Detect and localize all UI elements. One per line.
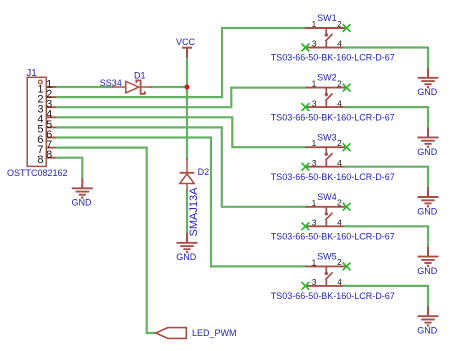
wire SW2 pin4 to GND — [344, 107, 428, 128]
svg-text:SW5: SW5 — [317, 252, 337, 262]
svg-text:3: 3 — [312, 158, 317, 168]
svg-text:2: 2 — [337, 138, 342, 148]
switch SW4 — [305, 207, 345, 227]
diode D2 (TVS) — [180, 159, 195, 191]
no-connect X pin2 SW1 — [343, 24, 351, 32]
svg-text:GND: GND — [176, 252, 197, 262]
svg-text:D2: D2 — [198, 167, 210, 177]
J1 pin numbers 1-8 — [46, 78, 52, 161]
svg-text:GND: GND — [417, 87, 438, 97]
svg-text:8: 8 — [37, 154, 43, 166]
svg-text:3: 3 — [312, 98, 317, 108]
switch SW2 — [305, 88, 345, 108]
svg-text:3: 3 — [312, 39, 317, 49]
switch SW5 — [305, 266, 345, 286]
ground GND-SW4 — [418, 247, 439, 267]
ground GND-SW3 — [418, 187, 439, 207]
switch SW3 — [305, 147, 345, 167]
wire D1 to VCC junction — [151, 86, 187, 88]
no-connect X pin2 SW3 — [343, 143, 351, 151]
svg-text:TS03-66-50-BK-160-LCR-D-67: TS03-66-50-BK-160-LCR-D-67 — [271, 112, 395, 122]
svg-text:2: 2 — [337, 198, 342, 208]
svg-text:8: 8 — [46, 149, 52, 161]
ground GND-D2 — [177, 233, 198, 253]
svg-text:SW2: SW2 — [317, 73, 337, 83]
svg-text:SMAJ13A: SMAJ13A — [188, 187, 200, 237]
wire pin2 to SW1 — [57, 28, 305, 97]
svg-text:2: 2 — [337, 257, 342, 267]
wire pin1 to D1 — [57, 86, 112, 88]
svg-text:3: 3 — [312, 277, 317, 287]
wire SW1 pin4 to GND — [344, 48, 428, 69]
no-connect X pin2 SW2 — [343, 84, 351, 92]
svg-text:1: 1 — [312, 198, 317, 208]
junction node VCC — [185, 85, 190, 90]
svg-text:TS03-66-50-BK-160-LCR-D-67: TS03-66-50-BK-160-LCR-D-67 — [271, 172, 395, 182]
svg-text:1: 1 — [312, 257, 317, 267]
svg-text:TS03-66-50-BK-160-LCR-D-67: TS03-66-50-BK-160-LCR-D-67 — [271, 232, 395, 242]
no-connect X pin3 SW3 — [302, 163, 310, 171]
wire D2 to GND — [186, 191, 188, 233]
svg-text:SW3: SW3 — [317, 132, 337, 142]
svg-text:TS03-66-50-BK-160-LCR-D-67: TS03-66-50-BK-160-LCR-D-67 — [271, 291, 395, 301]
no-connect X pin3 SW2 — [302, 103, 310, 111]
ground GND-SW2 — [418, 128, 439, 148]
svg-text:SS34: SS34 — [100, 78, 122, 88]
no-connect X pin2 SW4 — [343, 203, 351, 211]
ground GND-SW1 — [418, 68, 439, 88]
svg-text:3: 3 — [312, 218, 317, 228]
svg-text:4: 4 — [337, 39, 342, 49]
wire pin4 to SW3 — [57, 117, 305, 147]
svg-text:4: 4 — [337, 277, 342, 287]
wire pin3 to SW2 — [57, 88, 305, 108]
wire junction down to D2 — [186, 87, 188, 159]
svg-text:GND: GND — [417, 206, 438, 216]
svg-text:4: 4 — [337, 158, 342, 168]
ground GND-J1 — [72, 179, 93, 199]
svg-text:SW1: SW1 — [317, 13, 337, 23]
J1 pin names 1-8 — [37, 83, 43, 166]
svg-text:TS03-66-50-BK-160-LCR-D-67: TS03-66-50-BK-160-LCR-D-67 — [271, 53, 395, 63]
wire VCC rail vertical — [186, 58, 188, 88]
switch SW1 — [305, 28, 345, 48]
svg-text:GND: GND — [417, 147, 438, 157]
svg-text:J1: J1 — [26, 68, 37, 79]
svg-text:1: 1 — [312, 138, 317, 148]
svg-text:4: 4 — [337, 98, 342, 108]
no-connect X pin3 SW5 — [302, 282, 310, 290]
wire pin7 to LED_PWM — [57, 148, 156, 333]
svg-text:VCC: VCC — [176, 37, 196, 47]
svg-text:2: 2 — [337, 19, 342, 29]
svg-text:D1: D1 — [134, 71, 146, 81]
wire pin8 to GND — [57, 158, 82, 179]
ground GND-SW5 — [418, 306, 439, 326]
wire pin5 to SW4 — [57, 127, 305, 206]
net label LED_PWM — [156, 328, 187, 339]
svg-text:LED_PWM: LED_PWM — [192, 328, 237, 338]
svg-text:1: 1 — [312, 79, 317, 89]
svg-text:1: 1 — [312, 19, 317, 29]
power VCC — [182, 48, 192, 58]
wire SW5 pin4 to GND — [344, 286, 428, 307]
svg-text:2: 2 — [337, 78, 342, 88]
no-connect X pin3 SW1 — [302, 44, 310, 52]
wire SW4 pin4 to GND — [344, 226, 428, 247]
no-connect X pin2 SW5 — [343, 263, 351, 271]
connector J1 — [27, 77, 57, 166]
svg-text:GND: GND — [72, 198, 93, 208]
wire pin6 to SW5 — [57, 138, 305, 267]
svg-text:4: 4 — [337, 218, 342, 228]
svg-text:GND: GND — [417, 326, 438, 336]
svg-text:SW4: SW4 — [317, 192, 337, 202]
svg-text:GND: GND — [417, 266, 438, 276]
no-connect X pin3 SW4 — [302, 222, 310, 230]
wire SW3 pin4 to GND — [344, 167, 428, 188]
svg-text:OSTTC082162: OSTTC082162 — [7, 168, 68, 178]
diode D1 — [112, 80, 151, 93]
